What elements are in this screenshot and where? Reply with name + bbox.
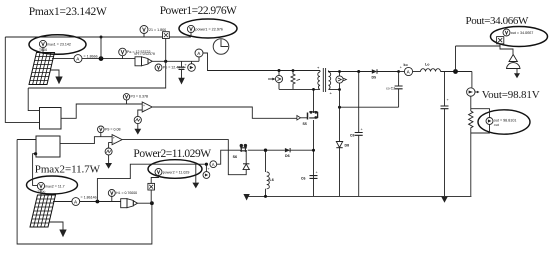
transformer T1 (317, 65, 333, 96)
wire link y107 (338, 106, 399, 109)
wire riser x358 with C8 (350, 72, 364, 197)
ground PV2 (50, 222, 67, 237)
node A junction (99, 56, 104, 61)
ammeter A2b (210, 161, 217, 168)
svg-text:out: out (494, 123, 499, 127)
svg-text:Vout=98.81V: Vout=98.81V (482, 89, 540, 101)
wire A2b up to S6 (217, 150, 239, 164)
wire comparator1 to gate S5 (152, 107, 297, 118)
ellipse highlight around Pmax2 probe (27, 176, 78, 194)
svg-text:D8: D8 (345, 144, 350, 148)
svg-text:TB20: TB20 (38, 190, 46, 194)
comparator U2 (112, 135, 122, 145)
diode D6 (285, 148, 314, 158)
svg-text:D5: D5 (372, 76, 377, 80)
svg-text:Pout=34.066W: Pout=34.066W (466, 15, 530, 27)
voltage probe Vout (467, 88, 480, 96)
ground carrier2 (105, 155, 112, 169)
wire node A up to top rail (100, 37, 102, 59)
wire bottom rail (247, 195, 472, 197)
svg-text:out = 98.8101: out = 98.8101 (494, 119, 517, 123)
voltage probe VPb (155, 64, 184, 71)
wire mult2 stem down (150, 190, 152, 203)
voltage probe Power1 (187, 25, 223, 37)
wire secondary bottom (329, 89, 340, 91)
wire converter1 bottom rail (279, 88, 320, 90)
inductor L6 (264, 150, 274, 198)
ellipse highlight around Pmax1 probe (29, 35, 86, 55)
voltage probe VPa (119, 48, 151, 58)
resistor R1 (291, 71, 300, 90)
svg-text:+: + (316, 171, 319, 175)
wire multiplier to power1 probe (169, 36, 191, 38)
svg-text:Lo: Lo (425, 63, 430, 67)
node cap co junction (397, 66, 403, 73)
ground PV1 (50, 70, 63, 84)
svg-text:L6: L6 (270, 178, 274, 182)
label Power2 value (133, 148, 211, 160)
node B junction (453, 69, 458, 74)
label Pmax1 value (29, 6, 107, 18)
svg-text:co C2: co C2 (386, 87, 395, 91)
wire MPPT1 output (61, 104, 142, 118)
label Pmax2 value (35, 163, 101, 175)
node R1 top (292, 69, 295, 72)
svg-text:= 1.86146: = 1.86146 (81, 196, 97, 200)
current probe IP1 (188, 61, 196, 71)
ammeter A1b (195, 49, 203, 61)
svg-text:A: A (74, 199, 78, 204)
svg-text:+: + (400, 66, 403, 70)
controlled source VS1 (268, 71, 283, 90)
carrier source circle1 (134, 110, 142, 124)
current probe Vout2 (486, 118, 516, 128)
diode D5 (372, 69, 399, 79)
label Vout value (482, 89, 540, 101)
label Power1 value (160, 5, 237, 17)
node PV2 junction (96, 200, 100, 204)
wire probe Pmax1 stem (42, 48, 44, 54)
wire secondary top (329, 71, 372, 72)
wire ammeter to node A (82, 58, 135, 60)
wire riser x339 with D8 (336, 90, 349, 197)
wire Lo to node B (441, 71, 472, 73)
svg-text:out = 34.0667: out = 34.0667 (511, 31, 534, 35)
node L6 top junction (264, 149, 267, 152)
wire left sense loop PV1 (5, 37, 39, 122)
voltage probe VP3 (123, 94, 148, 104)
svg-text:D6: D6 (285, 154, 290, 158)
ground carrier1 (134, 124, 141, 135)
voltage probe I22 (108, 190, 137, 202)
svg-text:power1 = 22.976: power1 = 22.976 (195, 28, 223, 32)
ground bottom rail left (243, 194, 249, 201)
svg-text:Pmax1=23.142W: Pmax1=23.142W (29, 6, 107, 18)
wattmeter W symbol (500, 44, 520, 78)
node wire164 probe junction (205, 163, 208, 166)
wire PV2 to ammeter (53, 201, 72, 203)
multiplier block P1 (163, 32, 170, 39)
svg-text:A: A (76, 56, 80, 61)
dc-dc block cone2 (121, 199, 138, 208)
svg-text:power2 = 11.029: power2 = 11.029 (163, 171, 190, 175)
ground C1 (178, 78, 185, 85)
voltage probe Pmax1 (39, 40, 71, 52)
mosfet S5 (297, 111, 318, 126)
ammeter A PV2 (72, 196, 97, 206)
node D6 out junction (312, 149, 315, 152)
node cone1 out junction (164, 60, 167, 63)
svg-text:max1 = 23.142: max1 = 23.142 (47, 43, 71, 47)
inductor Lo (413, 63, 441, 72)
svg-text:C8: C8 (350, 134, 355, 138)
solar panel PV1 (29, 53, 55, 85)
svg-text:+: + (447, 98, 450, 102)
wire node to ammeter ko (399, 71, 405, 73)
comparator U1 (142, 102, 152, 112)
wire load branch top (471, 72, 473, 88)
multiplier block Pout (497, 37, 504, 44)
node C junction (150, 201, 154, 205)
wire node B to pout meter (456, 44, 501, 72)
capacitor co C2 (386, 72, 403, 108)
svg-text:+: + (317, 65, 320, 70)
multiplier block P2 (148, 183, 155, 190)
wire S6 to D6 (248, 149, 285, 151)
block MPPT2 (36, 136, 60, 157)
resistor Rload (469, 111, 473, 133)
wire ammeter2 to cone2 (80, 201, 121, 203)
wire mult2 to probe power2 (151, 176, 158, 184)
svg-text:+: + (143, 103, 145, 107)
ellipse highlight around Pout probe (491, 27, 548, 47)
voltage probe Pmax2 (37, 182, 64, 193)
wire comparator2 to gate S6 (122, 140, 246, 175)
wire probe Pmax2 stem (40, 190, 42, 197)
svg-text:Pmax2=11.7W: Pmax2=11.7W (35, 163, 101, 175)
ammeter ko (404, 63, 413, 76)
wire cone1 output (152, 60, 199, 62)
node VS1 top (278, 69, 281, 72)
svg-text:S6: S6 (233, 155, 237, 159)
svg-text:+: + (113, 136, 115, 140)
solar panel PV2 (30, 195, 56, 227)
svg-text:C6: C6 (301, 177, 306, 181)
svg-text:S5: S5 (303, 122, 307, 126)
current probe IP2 (203, 164, 210, 178)
current sensor CS1 (336, 70, 347, 91)
voltage probe Power2 (155, 169, 189, 176)
wire load to bottom rail (470, 133, 472, 196)
wire probe to resistor (470, 96, 472, 111)
ellipse highlight around Power1 probe (179, 19, 237, 38)
diode S6 body (243, 150, 249, 169)
svg-text:ko: ko (404, 63, 409, 67)
block MPPT1 (40, 108, 62, 130)
svg-text:A: A (197, 51, 201, 56)
ellipse highlight around Power2 probe (148, 160, 202, 179)
svg-text:H1 = 0.76600: H1 = 0.76600 (116, 191, 137, 195)
wire box2 input (17, 139, 36, 141)
time block clock (213, 39, 229, 55)
wire cone2 to node C (138, 202, 152, 204)
ground under ellipse6 (192, 164, 199, 188)
label Pout value (466, 15, 530, 27)
svg-text:VH = 0.52378: VH = 0.52378 (134, 52, 155, 56)
svg-text:max2 = 11.7: max2 = 11.7 (45, 185, 65, 189)
wire top rail (5, 36, 162, 38)
wire Pmax2 probe to MPPT2 (33, 152, 38, 185)
ammeter A PV1 (74, 55, 98, 63)
svg-text:+: + (208, 167, 210, 171)
dc-dc block cone1 (134, 52, 155, 66)
svg-text:P9 = 0.08: P9 = 0.08 (105, 127, 121, 131)
wire PV2 sense up loop (97, 164, 206, 201)
wire A1b to converter rail (203, 53, 320, 71)
wire drain riser x313 (312, 88, 315, 196)
ellipse highlight around Vout probe (478, 110, 530, 134)
wire PV2 sense loop left (17, 140, 152, 245)
capacitor C1 (178, 61, 188, 78)
wire rail88 down to block1 (28, 88, 39, 111)
carrier source circle2 (105, 143, 112, 155)
svg-text:= 1.8666: = 1.8666 (84, 55, 98, 59)
ground bottom rail right (441, 197, 447, 203)
wire vout probe loop (471, 109, 490, 133)
svg-text:Power1=22.976W: Power1=22.976W (160, 5, 237, 17)
voltage probe VP9 (98, 126, 121, 137)
current probe I21 (140, 26, 166, 38)
voltage probe Pout (503, 29, 533, 36)
svg-text:Power2=11.029W: Power2=11.029W (133, 148, 211, 160)
mosfet S6 (233, 144, 247, 159)
svg-text:-: - (113, 141, 115, 145)
svg-text:A: A (212, 162, 215, 167)
svg-text:+: + (185, 63, 188, 67)
node top rail junction (100, 36, 103, 39)
node sec rail junction (357, 70, 360, 73)
wire MPPT2 output (60, 137, 112, 144)
svg-text:+: + (361, 128, 364, 132)
svg-text:P3 = 0.378: P3 = 0.378 (131, 95, 149, 99)
wire PV1 positive to ammeter (52, 58, 74, 60)
wire feedback rail y88 (28, 39, 166, 89)
capacitor C6 (301, 171, 319, 181)
svg-text:+: + (330, 91, 333, 96)
capacitor Cout branch (441, 72, 450, 197)
svg-text:A: A (407, 69, 411, 74)
svg-text:-: - (143, 108, 145, 112)
